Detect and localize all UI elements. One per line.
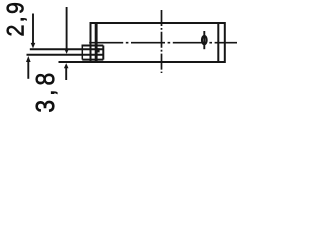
- hole centerline: [203, 31, 205, 49]
- mounting hole ellipse: [202, 36, 207, 44]
- bottom edge extension line C: [59, 61, 91, 63]
- block bottom edge: [82, 59, 103, 61]
- extension line A: [30, 48, 104, 50]
- dimension arrow down at line B: [64, 7, 69, 54]
- right inner wall: [217, 23, 219, 62]
- horizontal axis centerline: [89, 42, 237, 44]
- body outline: [91, 23, 225, 62]
- svg-text:3,8: 3,8: [31, 69, 60, 113]
- dimension arrow up at line B: [26, 56, 31, 79]
- vertical centerline: [161, 10, 163, 73]
- inner wall foot blob: [96, 48, 100, 52]
- terminal block outline: [81, 46, 83, 60]
- dimension arrow up at line C: [64, 63, 69, 80]
- left inner wall (thick bar): [95, 22, 98, 63]
- svg-text:2,9: 2,9: [1, 0, 29, 36]
- dimension arrow down at line A: [31, 14, 36, 49]
- extension line B: [27, 54, 104, 56]
